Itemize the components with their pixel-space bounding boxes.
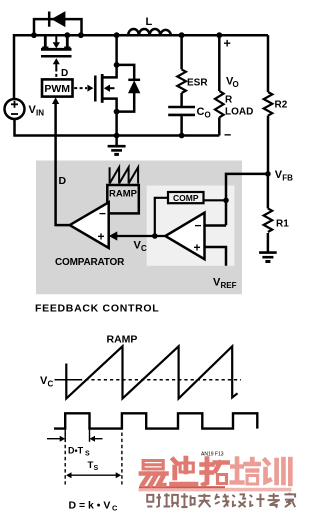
svg-text:C: C xyxy=(48,380,54,389)
svg-text:AN19 F13: AN19 F13 xyxy=(201,452,224,458)
svg-text:D = k • V: D = k • V xyxy=(69,500,111,512)
svg-text:R1: R1 xyxy=(276,219,289,230)
svg-text:IN: IN xyxy=(36,109,44,118)
svg-text:L: L xyxy=(146,16,153,28)
svg-text:+: + xyxy=(194,240,201,254)
svg-text:S: S xyxy=(94,465,99,472)
svg-text:REF: REF xyxy=(221,281,237,290)
svg-text:O: O xyxy=(205,111,211,120)
svg-text:PWM: PWM xyxy=(44,83,70,95)
svg-text:LOAD: LOAD xyxy=(225,107,253,118)
svg-text:R: R xyxy=(225,95,233,106)
svg-text:+: + xyxy=(98,229,105,243)
svg-text:R2: R2 xyxy=(275,100,288,111)
svg-text:−: − xyxy=(99,206,106,220)
svg-text:O: O xyxy=(233,80,239,89)
svg-text:C: C xyxy=(197,106,205,118)
svg-text:FEEDBACK CONTROL: FEEDBACK CONTROL xyxy=(35,303,159,315)
svg-text:D•T: D•T xyxy=(68,446,84,456)
svg-text:−: − xyxy=(224,128,231,142)
svg-text:D: D xyxy=(61,68,68,79)
svg-text:FB: FB xyxy=(282,174,293,183)
svg-text:RAMP: RAMP xyxy=(109,189,138,200)
svg-text:COMP: COMP xyxy=(173,193,199,203)
svg-text:ESR: ESR xyxy=(187,77,208,88)
svg-text:COMPARATOR: COMPARATOR xyxy=(55,257,125,268)
svg-text:C: C xyxy=(141,244,147,253)
svg-text:S: S xyxy=(85,450,90,457)
svg-text:RAMP: RAMP xyxy=(107,334,138,346)
svg-text:−: − xyxy=(195,218,202,232)
svg-text:D: D xyxy=(59,175,67,187)
svg-text:C: C xyxy=(112,504,118,513)
svg-text:+: + xyxy=(224,37,231,51)
